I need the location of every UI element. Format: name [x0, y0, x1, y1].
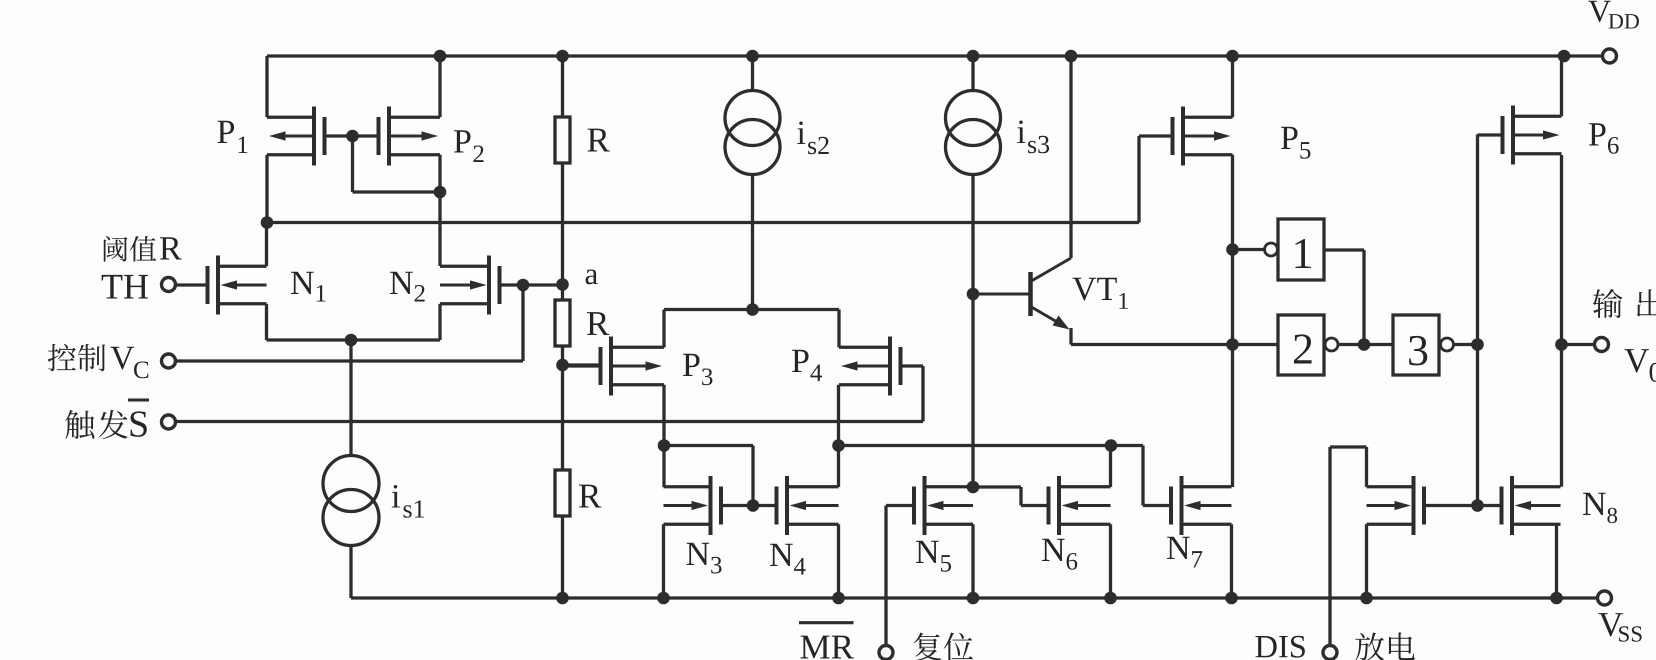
label R1 value R — [588, 129, 610, 152]
junction N3 VSS — [658, 592, 670, 604]
wire header to P3 — [662, 310, 665, 348]
current source is2 — [725, 91, 780, 175]
junction latch input 2 — [1227, 339, 1239, 351]
terminal TH — [162, 278, 176, 292]
label trigger 触发S — [65, 400, 149, 439]
wire drive node up to P6 gate — [1476, 135, 1479, 345]
wire VDD to is2 — [751, 56, 754, 91]
current source is3 — [946, 91, 1001, 175]
junction P1 drain node — [261, 217, 273, 229]
label P5 — [1281, 127, 1310, 159]
junction N2 gate — [517, 279, 529, 291]
wire to gate 1 bubble — [1233, 248, 1265, 251]
wire N7 source down — [1230, 524, 1233, 598]
junction is2 VDD — [747, 50, 759, 62]
transistor N2 — [440, 256, 523, 315]
junction inverter drive node — [1472, 339, 1484, 351]
wire N4 source down — [837, 524, 840, 598]
junction P2 drain gate tie — [434, 186, 446, 198]
terminal VC — [162, 354, 176, 368]
wire DIS jog — [1330, 447, 1367, 487]
wire output — [1562, 343, 1595, 346]
label gate 3 — [1409, 336, 1427, 366]
wire P5 source to VDD — [1231, 56, 1234, 117]
label control 控制VC — [48, 344, 148, 378]
junction tail node — [345, 334, 357, 346]
wire N3 source down — [662, 524, 665, 598]
transistor P6 — [1478, 106, 1562, 165]
junction discharge VSS — [1361, 592, 1373, 604]
wire gate tie horiz — [353, 190, 441, 193]
transistor N5 — [886, 476, 973, 535]
wire node b to P3 gate — [563, 363, 601, 366]
wire N1 drain up — [265, 223, 268, 267]
transistor N3 — [664, 476, 754, 535]
wire header to P4 — [837, 310, 840, 348]
wire N6 gate jog — [973, 487, 1021, 506]
wire common source header — [664, 308, 839, 311]
label VDD — [1588, 1, 1639, 29]
wire VT1 collector to VDD — [1069, 56, 1072, 258]
wire sources join — [267, 338, 441, 341]
junction N8 VSS — [1551, 592, 1563, 604]
wire DIS down — [1328, 447, 1331, 646]
wire P6 drain chain — [1560, 155, 1563, 487]
gate 2 box — [1278, 315, 1324, 375]
wire P1 drain down — [265, 155, 268, 223]
transistor P5 — [1139, 107, 1233, 166]
label R2 value R — [587, 312, 609, 335]
label N1 — [291, 272, 326, 302]
wire tail down — [349, 340, 352, 456]
wire comparator2 output — [839, 444, 1112, 447]
gate 1 input bubble — [1265, 243, 1278, 256]
junction node b — [557, 359, 569, 371]
transistor P4 — [839, 337, 923, 396]
wire node b down to R3 — [561, 365, 564, 470]
label MR — [799, 623, 854, 659]
wire N5 gate down to MR — [884, 506, 887, 646]
junction P2 VDD — [434, 50, 446, 62]
gate 2 output bubble — [1325, 338, 1338, 351]
current source is1 — [323, 456, 379, 546]
wire P1 source to VDD — [265, 56, 268, 117]
wire drive node down — [1476, 345, 1479, 506]
gate 3 box — [1393, 315, 1439, 375]
wire P6 source to VDD — [1560, 56, 1563, 116]
wire N6 drain up — [1109, 446, 1112, 488]
label is1 — [392, 485, 424, 518]
label threshold 阈值R — [104, 236, 182, 262]
wire N5 source down — [971, 524, 974, 598]
label VT1 — [1072, 278, 1127, 309]
wire N8 source down — [1555, 524, 1558, 598]
label TH — [102, 275, 148, 299]
wire is3 down to base — [971, 174, 974, 294]
label N5 — [916, 541, 951, 572]
transistor N7 — [1143, 476, 1232, 535]
junction N3N4 gates — [747, 500, 759, 512]
junction P4-N4 node — [833, 440, 845, 452]
terminal trigger S — [162, 415, 176, 429]
node a — [557, 279, 569, 291]
wire R2 to node b — [561, 346, 564, 365]
label P2 — [454, 130, 484, 162]
gate 1 box — [1278, 219, 1324, 280]
wire N2 gate to node a — [523, 283, 563, 286]
transistor N4 — [753, 476, 839, 535]
wire is1 to VSS — [349, 545, 352, 598]
junction gate outputs — [1358, 339, 1370, 351]
wire N6 source down — [1109, 524, 1112, 598]
transistor P2 — [353, 107, 441, 166]
wire N2 source down — [438, 304, 441, 340]
label N4 — [770, 544, 806, 575]
transistor P3 — [563, 337, 665, 396]
label output 输出 — [1593, 289, 1656, 318]
wire base node down to N5 — [971, 294, 974, 487]
wire discharge source down — [1365, 524, 1368, 598]
label N6 — [1042, 539, 1077, 570]
terminal VDD — [1603, 49, 1617, 63]
junction VT1 collector VDD — [1065, 50, 1077, 62]
junction N5 VSS — [967, 592, 979, 604]
junction P3-N3 node — [658, 440, 670, 452]
junction VT1 base node — [967, 288, 979, 300]
wire VC line — [176, 359, 524, 362]
junction N7 VSS — [1226, 592, 1238, 604]
wire N1 source down — [265, 304, 268, 340]
label is3 — [1017, 120, 1049, 153]
wire trigger line — [176, 420, 924, 423]
wire to gate 2 — [1233, 343, 1279, 346]
junction P5 VDD — [1227, 50, 1239, 62]
transistor N1 — [176, 256, 267, 315]
wire VSS rail — [351, 596, 1597, 599]
junction R3 VSS — [557, 592, 569, 604]
junction VDD-P6 — [1558, 50, 1570, 62]
wire P2 drain down to N2 — [438, 155, 441, 266]
wire P3 drain down — [662, 385, 665, 487]
junction P1-P2 gates — [347, 130, 359, 142]
wire VC up to gate — [521, 285, 524, 361]
label R3 value R — [579, 485, 601, 508]
label P4 — [792, 350, 822, 381]
junction is3 VDD — [967, 50, 979, 62]
wire VDD to R1 — [561, 56, 564, 117]
junction N6 VSS — [1105, 592, 1117, 604]
resistor R1 — [555, 117, 570, 163]
wire VDD rail — [267, 54, 1602, 57]
wire is2 down — [751, 174, 754, 309]
label is2 — [797, 121, 828, 154]
transistor discharge FET — [1367, 476, 1478, 535]
wire comp2 out jog — [1111, 446, 1143, 506]
wire P5 drain down to N7 — [1231, 155, 1234, 487]
label gate 2 — [1294, 334, 1312, 363]
junction N4 VSS — [833, 592, 845, 604]
wire gate 1 output — [1324, 250, 1364, 345]
junction output node — [1556, 339, 1568, 351]
wire P4 drain down — [837, 385, 840, 487]
label gate 1 — [1295, 239, 1310, 268]
junction P3P4 common source — [747, 304, 759, 316]
label N3 — [686, 543, 721, 574]
label P6 — [1589, 123, 1619, 154]
label P1 — [217, 121, 247, 153]
wire to gate 3 — [1338, 343, 1393, 346]
junction N6 drain node — [1105, 440, 1117, 452]
label P3 — [683, 354, 712, 386]
wire P2 source to VDD — [438, 56, 441, 117]
label VSS — [1598, 613, 1641, 642]
label V0 — [1624, 349, 1656, 382]
wire P4 gate down to trigger — [921, 366, 924, 422]
label discharge 放电 — [1355, 632, 1415, 660]
wire gate tie down — [351, 136, 354, 192]
transistor P1 — [267, 107, 353, 166]
transistor VT1 — [973, 258, 1071, 330]
wire VT1 emitter elbow — [1071, 328, 1233, 345]
label N7 — [1167, 537, 1202, 568]
wire R3 to VSS — [561, 516, 564, 598]
label N2 — [390, 272, 425, 302]
resistor R3 — [555, 470, 570, 516]
resistor R2 — [555, 300, 570, 346]
wire N3 drain to gates — [664, 446, 753, 506]
wire VDD to is3 — [971, 56, 974, 91]
terminal DIS — [1323, 646, 1337, 660]
transistor N6 — [1021, 476, 1111, 535]
wire comparator1 output — [267, 221, 1139, 224]
wire gate3 out to node — [1454, 343, 1478, 346]
gate 3 output bubble — [1441, 338, 1454, 351]
wire comparator1 out up to P5 gate — [1137, 136, 1140, 223]
label DIS — [1255, 636, 1304, 658]
terminal MR — [879, 646, 893, 660]
wire R1 to node a — [561, 163, 564, 300]
junction R1 VDD — [557, 50, 569, 62]
label node a — [586, 269, 598, 284]
terminal V0 — [1595, 338, 1609, 352]
terminal VSS — [1598, 591, 1612, 605]
label N8 — [1583, 493, 1617, 523]
junction N5 drain — [967, 481, 979, 493]
label reset 复位 — [914, 633, 973, 660]
transistor N8 — [1478, 476, 1561, 535]
junction N8 gate node — [1472, 500, 1484, 512]
junction latch input 1 — [1227, 244, 1239, 256]
